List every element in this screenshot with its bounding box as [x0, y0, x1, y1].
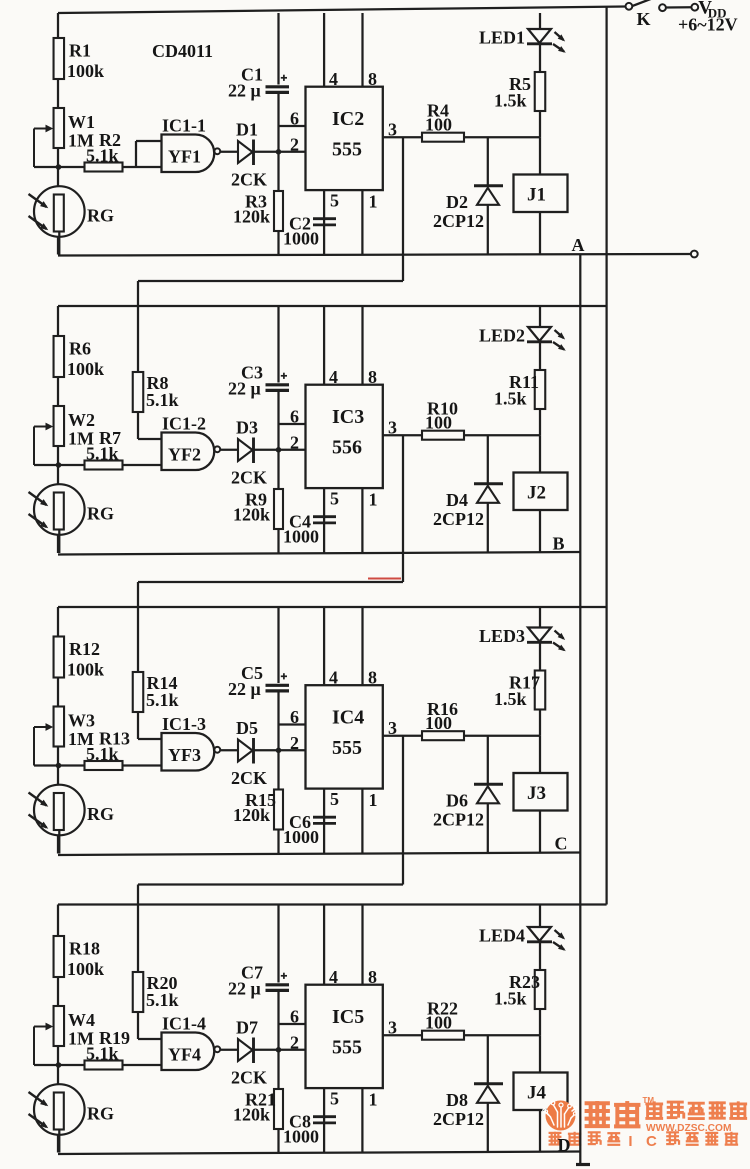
- svg-text:4: 4: [329, 69, 338, 89]
- svg-text:6: 6: [290, 707, 299, 727]
- svg-text:2CK: 2CK: [231, 170, 267, 190]
- svg-text:100: 100: [425, 115, 452, 135]
- svg-text:8: 8: [368, 967, 377, 987]
- svg-text:2CK: 2CK: [231, 468, 267, 488]
- svg-text:5: 5: [330, 191, 339, 211]
- svg-text:100: 100: [425, 413, 452, 433]
- svg-text:100k: 100k: [67, 359, 104, 379]
- svg-text:100k: 100k: [67, 61, 104, 81]
- svg-text:555: 555: [332, 737, 362, 759]
- svg-text:D4: D4: [446, 490, 468, 510]
- svg-text:6: 6: [290, 407, 299, 427]
- svg-text:2: 2: [290, 433, 299, 453]
- svg-text:1000: 1000: [283, 229, 319, 249]
- svg-text:5.1k: 5.1k: [86, 744, 119, 764]
- svg-text:IC5: IC5: [332, 1006, 364, 1028]
- svg-text:5.1k: 5.1k: [86, 1044, 119, 1064]
- svg-text:RG: RG: [87, 1104, 114, 1124]
- svg-text:1: 1: [369, 490, 378, 510]
- svg-text:1.5k: 1.5k: [494, 689, 527, 709]
- svg-text:K: K: [637, 9, 651, 29]
- svg-text:YF2: YF2: [168, 445, 201, 465]
- svg-text:1000: 1000: [283, 827, 319, 847]
- svg-text:5.1k: 5.1k: [146, 690, 179, 710]
- svg-text:4: 4: [329, 668, 338, 688]
- svg-text:120k: 120k: [233, 1105, 270, 1125]
- svg-text:RG: RG: [87, 804, 114, 824]
- svg-text:R18: R18: [69, 939, 100, 959]
- svg-text:LED3: LED3: [479, 626, 525, 646]
- svg-text:YF4: YF4: [168, 1045, 201, 1065]
- svg-text:D7: D7: [236, 1018, 258, 1038]
- svg-text:J3: J3: [527, 783, 546, 804]
- svg-text:+6~12V: +6~12V: [678, 15, 738, 35]
- svg-text:1: 1: [369, 192, 378, 212]
- svg-text:8: 8: [368, 367, 377, 387]
- svg-text:2CK: 2CK: [231, 768, 267, 788]
- svg-text:IC1-1: IC1-1: [162, 116, 206, 136]
- svg-text:6: 6: [290, 1007, 299, 1027]
- svg-text:22 μ: 22 μ: [228, 379, 261, 399]
- svg-text:R12: R12: [69, 639, 100, 659]
- svg-text:I: I: [628, 1133, 632, 1150]
- svg-text:2: 2: [290, 135, 299, 155]
- svg-text:100: 100: [425, 1013, 452, 1033]
- svg-text:5: 5: [330, 489, 339, 509]
- svg-text:B: B: [553, 534, 565, 554]
- svg-text:IC1-4: IC1-4: [162, 1014, 206, 1034]
- svg-text:1000: 1000: [283, 527, 319, 547]
- svg-text:D8: D8: [446, 1090, 468, 1110]
- svg-text:120k: 120k: [233, 207, 270, 227]
- svg-text:8: 8: [368, 668, 377, 688]
- svg-text:100k: 100k: [67, 660, 104, 680]
- svg-text:120k: 120k: [233, 505, 270, 525]
- svg-text:RG: RG: [87, 206, 114, 226]
- svg-text:CD4011: CD4011: [152, 41, 213, 61]
- svg-text:556: 556: [332, 437, 362, 459]
- svg-text:RG: RG: [87, 504, 114, 524]
- svg-text:J1: J1: [527, 185, 546, 206]
- svg-text:YF3: YF3: [168, 745, 201, 765]
- svg-text:LED2: LED2: [479, 326, 525, 346]
- svg-text:8: 8: [368, 69, 377, 89]
- svg-text:2CP12: 2CP12: [433, 1109, 484, 1129]
- svg-text:R6: R6: [69, 339, 91, 359]
- svg-text:100: 100: [425, 713, 452, 733]
- svg-text:5: 5: [330, 789, 339, 809]
- svg-text:W4: W4: [68, 1010, 95, 1030]
- svg-text:IC1-2: IC1-2: [162, 414, 206, 434]
- svg-text:1.5k: 1.5k: [494, 989, 527, 1009]
- svg-text:100k: 100k: [67, 959, 104, 979]
- svg-text:22 μ: 22 μ: [228, 81, 261, 101]
- svg-text:5.1k: 5.1k: [146, 390, 179, 410]
- svg-text:J2: J2: [527, 483, 546, 504]
- svg-text:D1: D1: [236, 120, 258, 140]
- svg-text:5.1k: 5.1k: [86, 444, 119, 464]
- svg-text:W3: W3: [68, 711, 95, 731]
- svg-text:5.1k: 5.1k: [86, 146, 119, 166]
- svg-text:555: 555: [332, 139, 362, 161]
- svg-text:22 μ: 22 μ: [228, 979, 261, 999]
- svg-text:D: D: [558, 1135, 571, 1155]
- svg-text:D3: D3: [236, 418, 258, 438]
- svg-text:2CP12: 2CP12: [433, 509, 484, 529]
- svg-text:2CK: 2CK: [231, 1068, 267, 1088]
- svg-text:IC2: IC2: [332, 108, 364, 130]
- svg-text:A: A: [572, 235, 585, 255]
- svg-text:1000: 1000: [283, 1127, 319, 1147]
- svg-text:1.5k: 1.5k: [494, 91, 527, 111]
- svg-text:5: 5: [330, 1089, 339, 1109]
- svg-text:6: 6: [290, 109, 299, 129]
- svg-text:120k: 120k: [233, 805, 270, 825]
- svg-text:2CP12: 2CP12: [433, 810, 484, 830]
- svg-text:C: C: [646, 1133, 657, 1150]
- svg-text:4: 4: [329, 367, 338, 387]
- svg-text:LED1: LED1: [479, 28, 525, 48]
- svg-text:4: 4: [329, 967, 338, 987]
- svg-text:2CP12: 2CP12: [433, 211, 484, 231]
- svg-text:1: 1: [369, 1090, 378, 1110]
- svg-text:1: 1: [369, 790, 378, 810]
- svg-text:555: 555: [332, 1037, 362, 1059]
- svg-text:IC1-3: IC1-3: [162, 714, 206, 734]
- svg-text:YF1: YF1: [168, 147, 201, 167]
- svg-text:D2: D2: [446, 192, 468, 212]
- svg-text:2: 2: [290, 733, 299, 753]
- svg-text:IC4: IC4: [332, 707, 364, 729]
- svg-text:2: 2: [290, 1033, 299, 1053]
- svg-text:LED4: LED4: [479, 926, 525, 946]
- svg-text:D6: D6: [446, 791, 468, 811]
- svg-text:1.5k: 1.5k: [494, 389, 527, 409]
- svg-text:W2: W2: [68, 410, 95, 430]
- svg-text:D5: D5: [236, 718, 258, 738]
- svg-text:5.1k: 5.1k: [146, 990, 179, 1010]
- svg-text:IC3: IC3: [332, 406, 364, 428]
- svg-text:C: C: [555, 834, 568, 854]
- svg-text:R1: R1: [69, 41, 91, 61]
- svg-text:22 μ: 22 μ: [228, 679, 261, 699]
- svg-text:W1: W1: [68, 112, 95, 132]
- svg-text:J4: J4: [527, 1083, 547, 1104]
